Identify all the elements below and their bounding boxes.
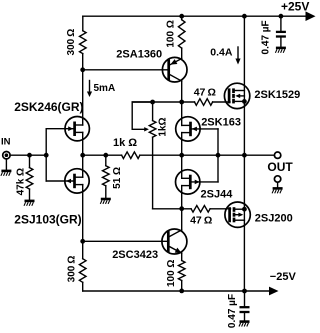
wire source row (1k to out rail): [140, 154, 245, 156]
transistor Q 2SA1360 PNP: [162, 57, 187, 82]
wire 2SJ103 gate: [46, 180, 73, 182]
wire 2SA1360 base: [83, 69, 168, 71]
trimmer 1k resistor vertical: [152, 102, 154, 121]
wire right rail (+25V to 2SK1529): [243, 16, 245, 155]
arrow 2SK246 gate (n-channel): [68, 126, 73, 131]
current arrow 0.4A: [237, 47, 239, 60]
svg-text:2SK246(GR): 2SK246(GR): [14, 100, 83, 114]
ground 51ohm: [101, 198, 111, 201]
svg-text:1k Ω: 1k Ω: [113, 137, 137, 149]
svg-text:2SC3423: 2SC3423: [112, 249, 158, 261]
node 2SJ200 drain-body tie: [242, 207, 247, 212]
wire 2SA1360 collector to VAS row: [181, 81, 183, 102]
svg-text:47 Ω: 47 Ω: [194, 86, 216, 98]
svg-text:OUT: OUT: [267, 160, 293, 174]
transistor Q 2SJ200 p-MOSFET: [225, 202, 250, 227]
terminal OUT return jack: [274, 176, 280, 182]
node mid rail source row junction: [179, 153, 184, 158]
node trimmer top junction: [150, 100, 155, 105]
svg-text:0.47 µF: 0.47 µF: [227, 294, 238, 328]
transistor Q 2SK1529 n-MOSFET: [224, 83, 249, 108]
transistor Q 2SK246(GR) n-JFET: [65, 117, 89, 141]
svg-text:2SJ103(GR): 2SJ103(GR): [14, 212, 81, 226]
svg-text:5mA: 5mA: [94, 83, 116, 94]
wire mid rail (collector junction to 2SK163): [181, 102, 183, 125]
wire 2SJ44 gate: [192, 181, 218, 183]
svg-text:300 Ω: 300 Ω: [67, 256, 78, 283]
svg-text:+25V: +25V: [281, 0, 309, 14]
node gate tie mid junction: [216, 153, 221, 158]
-25V rail arrowhead: [269, 287, 279, 296]
ground OUT return: [277, 182, 279, 187]
wire -25V bottom rail: [83, 290, 270, 292]
svg-text:51 Ω: 51 Ω: [112, 167, 123, 189]
node gate tie input junction: [44, 153, 49, 158]
wire left rail (2SJ103 to 2SC3423 base row): [82, 185, 84, 259]
svg-text:2SJ44: 2SJ44: [201, 188, 234, 200]
resistor 47k: [29, 155, 31, 167]
svg-text:1kΩ: 1kΩ: [158, 118, 169, 137]
wire source row (left rail to 1k): [83, 154, 122, 156]
wire 2SK163 gate: [192, 128, 218, 130]
resistor 300ohm top-left: [80, 31, 87, 54]
wire right rail (OUT to 2SJ200): [243, 155, 245, 291]
svg-text:IN: IN: [1, 136, 11, 147]
node bottom cap junction: [242, 289, 247, 294]
wire gate tie vertical (2SK163/2SJ44): [217, 129, 219, 182]
node lower drive row junction: [179, 206, 184, 211]
svg-text:100 Ω: 100 Ω: [166, 260, 177, 287]
transistor Q 2SK163 n-JFET: [176, 117, 200, 141]
ground bottom cap: [240, 320, 250, 323]
resistor 1k horizontal: [122, 152, 140, 159]
ground IN terminal: [5, 159, 7, 170]
svg-text:0.47 µF: 0.47 µF: [260, 20, 271, 54]
transistor Q 2SJ44 p-JFET: [176, 170, 200, 194]
node output junction: [242, 153, 247, 158]
wire mid rail (2SJ44 source down): [181, 186, 183, 230]
wire gate tie vertical (2SK246/2SJ103): [45, 129, 47, 181]
wire left rail (2SK246 source to 2SJ103): [82, 132, 84, 177]
arrow 2SJ44 gate (p-channel): [195, 180, 200, 185]
node 51ohm junction: [103, 153, 108, 158]
capacitor 0.47uF top: [280, 16, 282, 31]
ground top cap: [276, 47, 286, 50]
trimmer 1k wiper loop: [132, 102, 152, 129]
svg-text:0.4A: 0.4A: [210, 46, 233, 58]
svg-text:100 Ω: 100 Ω: [165, 20, 176, 47]
wire 47ohm to 2SJ200 gate: [210, 208, 230, 210]
transistor Q 2SC3423 NPN: [162, 229, 187, 254]
svg-text:300 Ω: 300 Ω: [66, 29, 77, 56]
node 2SA1360 collector junction: [179, 100, 184, 105]
trimmer 1k wiper arrowhead: [144, 127, 149, 131]
resistor 47ohm bottom: [191, 206, 210, 213]
svg-text:−25V: −25V: [270, 271, 297, 283]
svg-text:2SK1529: 2SK1529: [254, 89, 300, 101]
terminal IN jack: [3, 152, 10, 159]
transistor Q 2SJ103(GR) p-JFET: [65, 169, 89, 193]
resistor 47ohm top: [195, 99, 213, 106]
node input row left-rail junction: [80, 153, 85, 158]
wire output: [244, 154, 274, 156]
wire 47ohm to 2SK1529 gate: [213, 101, 230, 103]
node 2SA1360 base junction: [80, 67, 85, 72]
node 100ohm top junction: [179, 14, 184, 19]
wire +25V top rail: [83, 15, 306, 17]
wire IN to gate tie: [10, 154, 46, 156]
wire 2SK246 gate: [46, 128, 73, 130]
wire drive row (trimmer to 47ohm): [153, 208, 192, 210]
ground 47k: [25, 200, 35, 203]
resistor 51ohm: [105, 155, 107, 166]
node +25V right junction: [242, 14, 247, 19]
terminal OUT jack: [274, 152, 280, 158]
arrow 2SK163 gate (n-channel): [192, 127, 197, 132]
capacitor 0.47uF bottom: [244, 291, 246, 306]
node top cap junction: [279, 14, 284, 19]
resistor 100ohm top: [181, 16, 183, 20]
current arrow 5mA: [89, 81, 91, 93]
wire mid rail (2SK163 source to row): [181, 133, 183, 179]
svg-text:47k Ω: 47k Ω: [16, 168, 27, 195]
+25V rail arrowhead: [306, 11, 316, 21]
node 100ohm bottom junction: [179, 289, 184, 294]
wire VAS row: [132, 101, 194, 103]
svg-text:2SK163: 2SK163: [201, 116, 241, 128]
resistor 100ohm bottom: [181, 253, 183, 260]
node 47k junction: [27, 153, 32, 158]
svg-text:47 Ω: 47 Ω: [190, 214, 212, 226]
wire 2SC3423 base: [83, 240, 167, 242]
wire left rail (300ohm to 2SK246 drain): [82, 54, 84, 125]
node 2SK1529 source-body tie: [242, 99, 247, 104]
wire left rail bottom to -25V rail: [82, 282, 84, 291]
node 2SC3423 base junction: [80, 239, 85, 244]
arrow 2SJ103 gate (p-channel): [66, 179, 71, 184]
svg-text:2SA1360: 2SA1360: [116, 48, 162, 60]
svg-text:2SJ200: 2SJ200: [255, 212, 293, 224]
wire left rail top segment (+25V to R 300ohm): [82, 16, 84, 31]
resistor 300ohm bottom-left: [79, 259, 86, 283]
